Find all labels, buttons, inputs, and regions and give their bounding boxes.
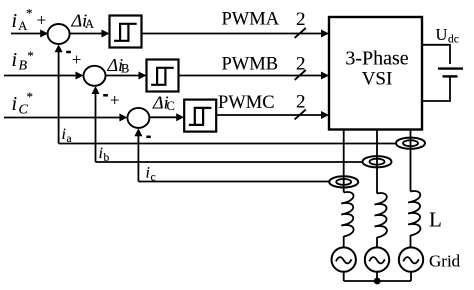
label ΔiC <box>152 93 175 113</box>
wire source b to neutral bus <box>376 272 378 281</box>
svg-text:*: * <box>26 6 33 21</box>
grid source Ga <box>332 247 356 271</box>
neutral junction dot <box>374 278 381 285</box>
svg-text:C: C <box>19 103 29 118</box>
current sensor CT on phase b (ib) <box>363 156 392 167</box>
hysteresis comparator H1 <box>110 16 142 48</box>
svg-text:2: 2 <box>296 92 306 113</box>
svg-text:B: B <box>121 61 129 75</box>
svg-text:*: * <box>27 89 34 104</box>
svg-text:+: + <box>37 10 47 29</box>
wire capacitor bottom to VSI <box>422 78 450 102</box>
svg-text:3-Phase: 3-Phase <box>345 48 408 70</box>
svg-text:C: C <box>167 99 175 113</box>
svg-text:U: U <box>436 25 448 44</box>
label Udc <box>436 25 459 46</box>
svg-text:i: i <box>12 49 18 71</box>
minus sign at S2 <box>103 94 108 97</box>
svg-text:i: i <box>146 165 150 182</box>
label iB* reference input <box>12 48 34 74</box>
label ib <box>99 145 110 164</box>
wire coil b to source b <box>376 237 378 248</box>
svg-text:i: i <box>12 10 18 32</box>
wire S2 to H2 <box>106 72 147 80</box>
wire source a to neutral bus <box>343 272 345 281</box>
svg-text:*: * <box>27 48 34 63</box>
label ΔiB <box>107 55 130 75</box>
svg-text:dc: dc <box>448 34 459 46</box>
svg-text:PWMC: PWMC <box>218 93 275 113</box>
wire coil c to source c <box>410 235 412 248</box>
wire S1 to H1 <box>70 30 110 38</box>
inductor coil phase a <box>341 192 353 237</box>
label ΔiA <box>71 11 95 31</box>
wire VSI phase b output <box>376 130 378 194</box>
current sensor CT on phase c (ia) <box>396 138 425 149</box>
wire feedback ic horizontal <box>138 181 329 183</box>
neutral bus wire <box>344 280 411 282</box>
label ia <box>62 126 72 145</box>
wire iC* input <box>4 114 127 122</box>
svg-text:2: 2 <box>296 9 306 30</box>
wire PWMA <box>142 30 330 38</box>
wire PWMC <box>216 111 329 119</box>
current sensor CT on phase a (ic) <box>329 176 358 187</box>
svg-text:i: i <box>99 145 103 162</box>
svg-text:B: B <box>19 59 28 74</box>
grid source Gb <box>365 247 389 271</box>
inductor coil phase b <box>375 193 387 238</box>
wire feedback ib horizontal <box>96 161 363 163</box>
svg-text:+: + <box>110 91 120 110</box>
svg-text:i: i <box>12 93 18 115</box>
label ic <box>146 165 156 184</box>
minus sign at S3 <box>146 136 151 139</box>
wire feedback ia horizontal <box>59 143 396 145</box>
svg-text:Grid: Grid <box>429 252 461 271</box>
summing junction S1 <box>48 24 70 44</box>
bus slash PWMB <box>295 70 306 80</box>
wire VSI phase a output <box>343 130 345 193</box>
wire feedback ib vertical into S2 <box>92 86 100 162</box>
svg-text:VSI: VSI <box>362 69 393 90</box>
inductor coil phase c <box>408 191 420 236</box>
DC-link capacitor Udc <box>438 69 463 77</box>
svg-text:L: L <box>429 208 442 232</box>
bus slash PWMA <box>295 28 306 38</box>
label iC* reference input <box>12 89 34 118</box>
wire feedback ia vertical into S1 <box>55 44 63 143</box>
svg-text:A: A <box>85 17 94 31</box>
wire coil a to source a <box>343 236 345 248</box>
wire S3 to H3 <box>149 113 184 121</box>
wire source c to neutral bus <box>410 272 412 281</box>
summing junction S2 <box>84 66 106 86</box>
minus sign at S1 <box>66 51 71 54</box>
svg-text:i: i <box>62 126 66 143</box>
wire VSI to capacitor top <box>422 45 450 64</box>
hysteresis comparator H3 <box>184 100 216 132</box>
svg-text:+: + <box>72 50 82 69</box>
wire iA* input <box>11 30 48 38</box>
svg-text:PWMA: PWMA <box>222 10 280 30</box>
wire VSI phase c output <box>410 130 412 192</box>
label iA* reference input <box>12 6 33 34</box>
svg-text:2: 2 <box>296 54 306 75</box>
grid source Gc <box>399 247 423 271</box>
wire iB* input <box>4 72 84 80</box>
bus slash PWMC <box>295 110 306 120</box>
summing junction S3 <box>127 108 149 128</box>
wire feedback ic vertical into S3 <box>134 128 142 181</box>
3-phase VSI block U1 <box>329 17 422 130</box>
wire PWMB <box>179 72 330 80</box>
svg-text:PWMB: PWMB <box>222 55 279 75</box>
hysteresis comparator H2 <box>147 60 179 92</box>
